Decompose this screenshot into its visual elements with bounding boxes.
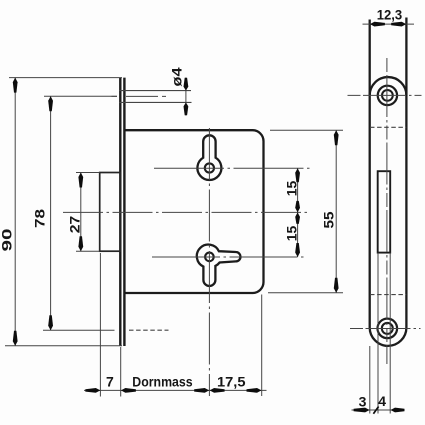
dim 90 arrow down (13, 331, 18, 346)
dim 12,3 arrow right (391, 22, 406, 27)
dim 15 arrows middle (295, 201, 300, 213)
top screw boss arc (370, 77, 407, 95)
dim 15 arrow bottom (295, 243, 300, 257)
dim 78 line (50, 96, 52, 330)
dim 3/4 middle tick (373, 407, 378, 414)
dim 27 line (80, 173, 82, 252)
svg-text:4: 4 (378, 393, 386, 409)
dim 12,3 arrow left (370, 22, 385, 27)
svg-text:3: 3 (359, 394, 367, 410)
dim 12,3 line (363, 23, 415, 25)
bottom dimension line (84, 389, 267, 391)
mounting box behind plate (100, 173, 121, 252)
bottom keyhole (197, 245, 241, 286)
bottom plate hole hidden line (129, 329, 169, 331)
svg-text:ø4: ø4 (169, 67, 185, 86)
dim 27 arrow up (78, 173, 83, 188)
dim Dornmass arrow right (194, 388, 209, 393)
bottom keyhole inner circle (205, 253, 214, 262)
slot left extension (377, 253, 379, 414)
hidden line top (370, 126, 406, 128)
dim 55 extension bottom (268, 292, 343, 294)
top keyhole inner circle (205, 163, 214, 172)
faceplate side view left edge (119, 78, 121, 346)
top keyhole centerline (154, 167, 310, 169)
faceplate bottom rounded end (370, 328, 407, 346)
faceplate front left edge (369, 20, 371, 328)
dim 90 extension bottom (5, 345, 122, 347)
svg-text:78: 78 (31, 209, 47, 228)
svg-text:12,3: 12,3 (377, 7, 403, 23)
dim 27 extension top (76, 172, 100, 174)
main horizontal centerline (63, 211, 307, 213)
dim 78 arrow down (48, 315, 53, 330)
dim 7/Dornmass arrow (121, 388, 136, 393)
svg-text:27: 27 (66, 216, 82, 234)
svg-text:7: 7 (106, 374, 114, 390)
svg-text:17,5: 17,5 (217, 373, 246, 389)
bottom dim extension x=100.4 (99, 253, 101, 397)
bottom screw hole outer (378, 319, 398, 339)
dim 90 extension top (9, 77, 122, 79)
dim 15/15 line (297, 168, 299, 257)
dim 55 line (335, 130, 337, 292)
top screw hole inner (382, 90, 393, 101)
dim 17,5 arrow right (247, 388, 262, 393)
dim o4 arrow upper (184, 78, 189, 91)
dim 55 arrow up (334, 130, 339, 145)
bottom dim extension x=120.7 (120, 347, 122, 397)
dim 17,5 arrow left (210, 388, 225, 393)
dim 27 arrow down (78, 236, 83, 251)
dim 78 extension bottom (43, 329, 115, 331)
svg-text:90: 90 (0, 228, 15, 251)
bottom dim extension x=261.7 (261, 295, 263, 397)
svg-text:55: 55 (321, 211, 337, 228)
dim 3 arrow left (354, 408, 370, 413)
bottom keyhole centerline (152, 256, 307, 258)
dim 55 extension top (270, 129, 343, 131)
dim 55 arrow down (334, 278, 339, 293)
top screw hole outer (378, 86, 397, 105)
dim 78 extension top (44, 95, 117, 97)
lock body outline (125, 130, 263, 293)
faceplate side view right edge (123, 78, 125, 346)
bottom screw hole inner (382, 323, 393, 334)
plate vertical centerline (386, 58, 388, 364)
dim 7 arrow left (85, 388, 100, 393)
plate screw hole top edge (o4) (119, 90, 191, 92)
dim 15 arrow top (295, 168, 300, 182)
dim 90 arrow up (13, 78, 18, 93)
dim o4 line (185, 78, 187, 116)
faceplate front right edge (405, 18, 407, 328)
hidden line bottom (370, 294, 406, 296)
plate screw hole bottom edge (o4) (119, 101, 192, 103)
dim 90 line (14, 78, 16, 346)
bottom screw centerline (350, 328, 421, 330)
slot right extension (389, 253, 391, 414)
top screw centerline (348, 94, 422, 96)
dim 3/4 line (352, 409, 404, 411)
top keyhole (197, 135, 221, 180)
dim o4 arrow lower (184, 102, 189, 115)
dim 27 extension bottom (76, 250, 100, 252)
keyhole vertical centerline (208, 128, 210, 396)
screw hole centerline top (112, 95, 167, 97)
svg-text:Dornmass: Dornmass (132, 373, 192, 389)
svg-text:15: 15 (284, 181, 300, 197)
svg-text:15: 15 (284, 226, 300, 242)
dim 4 arrow right (391, 408, 405, 413)
plate edge extension (369, 346, 371, 414)
dim 78 arrow up (48, 96, 53, 111)
bolt slot (378, 171, 391, 252)
